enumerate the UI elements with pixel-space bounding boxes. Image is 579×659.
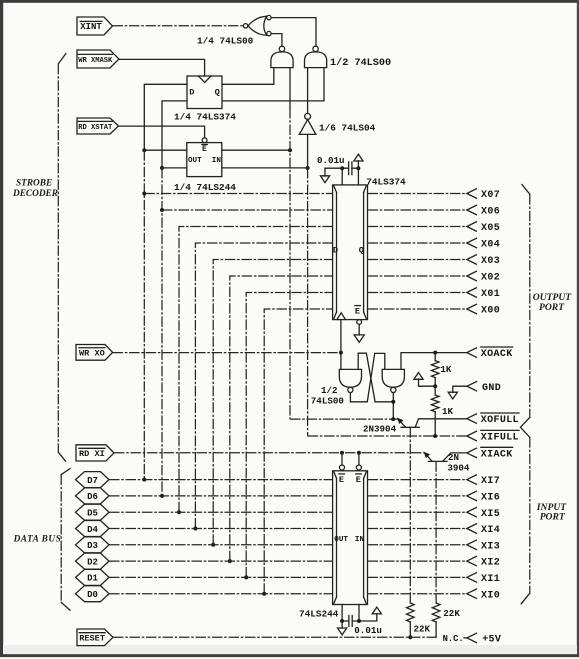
wire WR X0: [113, 352, 341, 354]
svg-text:E: E: [202, 145, 207, 154]
wire U5 D6 input line: [162, 209, 333, 211]
wire U3 left pin top: [142, 148, 146, 152]
svg-text:1/4 74LS244: 1/4 74LS244: [174, 182, 236, 193]
wire cap right to +5V rail: [352, 167, 359, 169]
wire latch B output to XOFULL net: [392, 393, 394, 420]
svg-text:E: E: [356, 475, 361, 485]
node RESET flag: [77, 629, 113, 646]
wire U5 D7 input line: [144, 193, 332, 195]
svg-text:1/2 74LS00: 1/2 74LS00: [330, 57, 391, 69]
wire U1b left input from U2 Q1: [223, 68, 274, 85]
wire U5 clock pin down to WR X0 line: [340, 320, 342, 353]
svg-text:1/4 74LS374: 1/4 74LS374: [174, 112, 236, 123]
wire U6 enables up to RD XI line: [341, 453, 343, 465]
label STROBE DECODER: [12, 179, 58, 200]
U6 enable bubbles and E labels: [339, 465, 362, 485]
svg-text:XI4: XI4: [481, 525, 500, 536]
gate U1e NAND latch B: [382, 369, 404, 392]
node XINT flag: [77, 17, 113, 35]
wire R2 bottom to XIFULL line: [434, 412, 436, 436]
node RD XI flag: [76, 445, 114, 461]
capacitor C1 0.01u: [349, 162, 352, 175]
node D0 flag: [76, 586, 110, 602]
node +5V flag: [464, 633, 501, 645]
wire/node output X04: [368, 238, 501, 250]
wire U5 D2 input line: [230, 276, 333, 561]
svg-text:Q: Q: [215, 88, 220, 98]
wire U1b right input (long vertical to latch/XOFULL area): [289, 68, 291, 108]
svg-text:74LS00: 74LS00: [311, 395, 344, 406]
resistor R2 1K: [431, 395, 439, 412]
wire/node input XI2: [368, 556, 501, 568]
wire U2 D1 input from D7 riser: [144, 84, 187, 150]
buffer U3 1/4 74LS244: [187, 138, 222, 177]
wire XINT to gate: [113, 25, 244, 27]
svg-text:D1: D1: [87, 574, 98, 584]
gate U1c NAND (vertical, right): [305, 46, 327, 67]
wire latch A right input (cross coupling from B output): [358, 353, 393, 402]
node D7 flag: [76, 472, 110, 488]
wire U1c left input from inverter U4: [307, 68, 309, 114]
svg-text:2N: 2N: [448, 452, 459, 463]
node D6 flag: [76, 488, 110, 504]
node WR XMASK flag: [77, 50, 119, 68]
svg-text:XI5: XI5: [481, 509, 500, 520]
svg-text:N.C.: N.C.: [443, 634, 464, 644]
svg-text:XI2: XI2: [481, 558, 500, 569]
wire U4 input / XIFULL net vertical: [307, 134, 309, 168]
wire latch A left input from WR X0: [340, 353, 342, 370]
wire Q1 base to 22K R3: [409, 427, 411, 603]
label OUTPUT PORT: [533, 292, 573, 313]
node D5 flag: [76, 504, 110, 520]
svg-text:X00: X00: [481, 306, 500, 317]
wire U3 right pin bottom to U4 input: [222, 167, 308, 169]
svg-text:XI6: XI6: [481, 493, 500, 504]
node D2 flag: [76, 553, 110, 569]
node D4 flag: [76, 521, 110, 537]
svg-text:D5: D5: [87, 509, 98, 519]
label INPUT PORT: [536, 502, 567, 522]
svg-text:X06: X06: [481, 207, 500, 218]
wire riser D7 net vertical: [143, 150, 145, 479]
node WR X0 flag: [76, 345, 113, 361]
node RD XSTAT flag: [77, 118, 119, 134]
svg-text:D0: D0: [87, 590, 98, 600]
svg-text:XI0: XI0: [481, 590, 500, 601]
wire latch B right input to XOACK line: [401, 353, 466, 370]
ground arrow (374 Vcc bypass): [320, 168, 329, 182]
gate U1b NAND (vertical, left): [271, 46, 293, 67]
wire/node input XI3: [368, 540, 501, 552]
resistor R1 1K: [434, 353, 436, 361]
flip-flop U2 1/4 74LS374: [187, 76, 222, 109]
wire U5 D3 input line: [213, 260, 332, 545]
wire U3 left pin bottom: [160, 166, 164, 170]
capacitor C2 0.01u: [349, 616, 352, 627]
wire/node input XI7: [368, 475, 501, 487]
wire U5 D4 input line: [195, 243, 332, 529]
node GND flag: [467, 382, 501, 394]
svg-text:1K: 1K: [442, 406, 454, 417]
wire RD XI: [114, 452, 425, 454]
svg-text:22K: 22K: [414, 624, 431, 635]
+5V arrow (374 supply): [354, 154, 363, 185]
svg-text:RD XSTAT: RD XSTAT: [78, 124, 113, 132]
svg-text:2N3904: 2N3904: [363, 424, 397, 435]
wire U6 vcc pin + +5V arrow: [352, 605, 381, 624]
transistor Q1 2N3904: [397, 418, 467, 428]
wire data bus D3: [109, 544, 333, 546]
svg-text:X01: X01: [481, 289, 500, 300]
svg-text:74LS244: 74LS244: [299, 608, 339, 619]
wire GND flag to ground arrow: [448, 386, 467, 399]
svg-text:74LS374: 74LS374: [366, 177, 406, 188]
resistor R3 22K: [407, 603, 415, 622]
node XOACK flag: [467, 347, 513, 360]
svg-text:D3: D3: [87, 541, 98, 551]
wire/node output X02: [368, 271, 501, 283]
svg-text:D7: D7: [87, 476, 98, 486]
wire/node input XI0: [368, 589, 501, 601]
svg-text:Q: Q: [359, 245, 364, 255]
wire U6 gnd pin + ground arrow: [338, 605, 349, 635]
IC U6 74LS244 input port buffer: [333, 471, 368, 605]
wire/node output X01: [368, 288, 501, 300]
output/input port bracket: [520, 185, 529, 604]
wire/node output X00: [368, 304, 501, 316]
wire U5 D5 input line: [179, 227, 333, 513]
data bus bracket: [61, 469, 70, 611]
svg-text:D: D: [189, 88, 194, 98]
svg-text:0.01u: 0.01u: [317, 155, 345, 166]
svg-text:XI1: XI1: [481, 574, 500, 585]
svg-text:IN: IN: [212, 157, 222, 165]
wire U2 D2 input from D6 riser: [162, 101, 187, 168]
svg-text:XI7: XI7: [481, 476, 500, 487]
svg-text:1/4 74LS00: 1/4 74LS00: [197, 36, 254, 47]
node D3 flag: [76, 537, 110, 553]
svg-text:22K: 22K: [443, 608, 460, 619]
wire/node input XI5: [368, 508, 501, 520]
node XIACK flag: [467, 447, 513, 460]
wire data bus D6: [109, 495, 333, 497]
wire latch A output stub: [349, 393, 351, 402]
wire gate U1a bottom input from U1b: [271, 34, 282, 46]
svg-text:IN: IN: [355, 536, 365, 544]
wire/node output X05: [368, 222, 501, 234]
wire/node output X03: [368, 255, 501, 267]
svg-text:XOACK: XOACK: [481, 349, 513, 360]
svg-text:XOFULL: XOFULL: [481, 415, 519, 426]
svg-text:WR XMASK: WR XMASK: [78, 57, 113, 65]
svg-text:OUT: OUT: [188, 157, 202, 165]
clock wedge U5: [337, 313, 346, 320]
svg-text:PORT: PORT: [539, 302, 565, 313]
svg-text:PORT: PORT: [540, 511, 566, 522]
wire U5 D1 input line: [246, 293, 332, 578]
inverter U4 1/6 74LS04: [299, 113, 316, 134]
wire/node input XI6: [368, 491, 501, 503]
svg-text:3904: 3904: [447, 462, 470, 473]
wire data bus D4: [109, 528, 333, 530]
svg-text:XI3: XI3: [481, 541, 500, 552]
node XIFULL flag: [467, 430, 519, 443]
label 1/2 74LS00 (latch): [311, 385, 344, 406]
svg-text:D: D: [333, 245, 338, 255]
wire data bus D5: [109, 511, 333, 513]
svg-text:RESET: RESET: [79, 633, 105, 643]
svg-text:D6: D6: [87, 492, 98, 502]
enable bubble + arrow below U5: [354, 320, 364, 343]
label 2N 3904 (Q2): [447, 452, 470, 474]
wire data bus D2: [109, 560, 333, 562]
wire WR XMASK to U2 clock: [119, 59, 205, 76]
IC U5 74LS374 output port latch: [333, 185, 368, 320]
svg-text:GND: GND: [482, 383, 501, 394]
+5V arrow at R1/R2 node: [414, 373, 435, 387]
svg-text:DATA BUS: DATA BUS: [13, 535, 62, 545]
svg-text:E: E: [339, 475, 344, 485]
wire U1c right input from U2 Q2: [223, 68, 324, 101]
svg-text:1/6 74LS04: 1/6 74LS04: [319, 122, 376, 133]
wire U3 right pin top to U1b leg: [222, 149, 290, 151]
svg-text:X02: X02: [481, 273, 500, 284]
wire U5 D0 input line: [264, 309, 332, 594]
wire/node input XI4: [368, 524, 501, 536]
svg-text:X07: X07: [481, 190, 500, 201]
svg-text:D4: D4: [87, 525, 98, 535]
pin label E (latch enable): [355, 306, 361, 317]
svg-text:WR XO: WR XO: [79, 348, 105, 358]
wire/node output X06: [368, 205, 501, 217]
wire Q2 base to 22K R4: [435, 461, 437, 603]
svg-text:STROBE: STROBE: [16, 179, 52, 189]
svg-text:X04: X04: [481, 240, 500, 251]
svg-text:0.01u: 0.01u: [354, 625, 382, 636]
svg-text:RD XI: RD XI: [79, 449, 105, 459]
wire latch B left input (cross coupling from A output): [350, 353, 384, 401]
svg-text:X03: X03: [481, 256, 500, 267]
wire/node output X07: [368, 189, 501, 201]
node D1 flag: [76, 569, 110, 585]
svg-text:XINT: XINT: [80, 22, 102, 32]
gate U1a 1/4 74LS00 (negative-input OR, output to XINT): [243, 15, 271, 35]
svg-text:1K: 1K: [440, 364, 452, 375]
svg-text:+5V: +5V: [482, 635, 501, 646]
resistor R4 22K: [432, 603, 440, 622]
svg-text:DECODER: DECODER: [12, 189, 58, 199]
svg-text:X05: X05: [481, 223, 500, 234]
wire cap left to 374 GND pin: [325, 167, 349, 169]
gate U1d NAND latch A: [339, 369, 361, 392]
wire/node input XI1: [368, 573, 501, 585]
wire data bus D1: [109, 576, 333, 578]
svg-text:XIACK: XIACK: [481, 450, 513, 461]
wire riser D6 net vertical: [161, 168, 163, 496]
transistor Q2 2N3904: [424, 452, 467, 462]
wire data bus D0: [109, 593, 333, 595]
svg-text:E: E: [355, 306, 360, 316]
wire gate U1a top input from U1c: [271, 18, 316, 46]
strobe decoder section bracket: [58, 54, 66, 462]
svg-text:D2: D2: [87, 557, 98, 567]
wire RD XSTAT to U3 enable: [119, 126, 205, 138]
svg-text:OUT: OUT: [334, 536, 348, 544]
svg-text:XIFULL: XIFULL: [481, 433, 519, 444]
wire RESET rail: [113, 636, 436, 638]
wire data bus D7: [109, 479, 333, 481]
node XOFULL flag: [467, 413, 519, 426]
